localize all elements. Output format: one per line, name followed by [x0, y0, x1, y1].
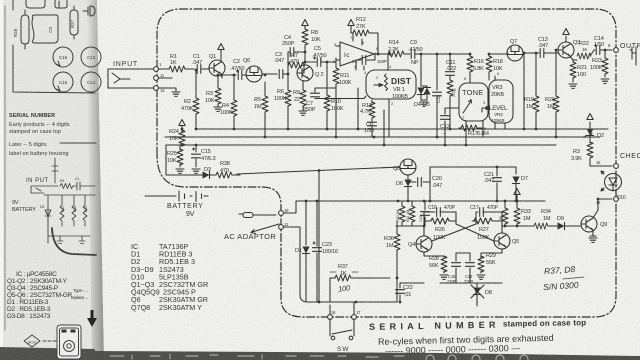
resistor column 3 — [83, 205, 87, 226]
transistor Q2 — [297, 65, 313, 81]
resistor R33 1M — [516, 195, 518, 208]
diode D5 — [426, 86, 428, 87]
wire stub Q7 line — [523, 53, 525, 129]
capacitor C20 .047 — [408, 181, 416, 183]
capacitor C11 .022 — [449, 54, 451, 70]
junction dots on rails — [195, 128, 198, 131]
AC adaptor plug — [239, 213, 243, 215]
pot TONE box — [459, 83, 488, 121]
check jack pin 15 — [614, 164, 619, 169]
wire Q1 emitter — [221, 74, 236, 78]
check jack pin 14 — [614, 197, 619, 202]
pcb part top rect — [26, 0, 45, 8]
resistor column 2 — [72, 205, 76, 226]
capacitor C12 .1 — [444, 108, 446, 114]
capacitor C4 250P — [288, 52, 290, 65]
emitter node Q3 — [570, 56, 577, 60]
capacitor C16 470P — [424, 211, 435, 213]
resistor R8 10K — [304, 45, 306, 52]
capacitor C16 pcb — [53, 47, 73, 67]
ground Q9 — [590, 230, 596, 236]
capacitor C7 250P — [315, 88, 336, 92]
wire vertical — [52, 158, 58, 183]
9V switching rail — [283, 201, 545, 213]
pot DIST VR1 100KB — [387, 54, 389, 70]
capacitor C10 — [436, 54, 438, 90]
capacitor C13 .047 — [540, 49, 544, 58]
resistor R11 100K — [335, 60, 337, 137]
parts list main page — [131, 242, 208, 312]
switch net line — [308, 301, 397, 303]
resistor R24 10K — [181, 126, 183, 129]
capacitor C2 .47/50 — [238, 71, 242, 80]
base line to Q9 — [502, 225, 534, 227]
resistor R23 100K — [604, 50, 606, 58]
resistor R16 6.8K — [469, 54, 471, 56]
left page PCB layout box — [13, 0, 95, 93]
pcb labels — [13, 19, 96, 85]
pcb part top small rect — [55, 0, 67, 8]
capacitor C3 .047 — [279, 70, 283, 79]
pin stubs IC — [336, 33, 382, 70]
serial number note left page — [9, 113, 70, 157]
resistor R32 10K — [504, 201, 506, 208]
resistor column 1 — [60, 205, 64, 226]
left page mini schematic — [31, 158, 96, 255]
transistor Q1 — [209, 60, 225, 76]
parts list left page — [7, 271, 88, 320]
resistor R12 27K — [351, 26, 353, 33]
thick border curve left page — [52, 228, 96, 255]
resistor R37 1K — [330, 278, 335, 302]
node wires — [44, 195, 95, 243]
transistor Q7 FET switch — [507, 45, 523, 61]
resistor R27 100K — [472, 220, 476, 222]
resistor R29 56K — [481, 249, 502, 258]
resistor R36 1M — [396, 250, 398, 302]
resistor R27 pcb — [70, 6, 78, 39]
capacitor C1 left page — [73, 182, 95, 190]
transistor Q3 — [558, 42, 574, 58]
diode D3 left page — [45, 210, 51, 226]
resistor R14 2.2K — [382, 53, 388, 55]
resistor R28 56K — [424, 252, 444, 258]
capacitor C15 47/6.3 — [193, 145, 197, 152]
capacitor C5 .47/50 — [305, 57, 316, 62]
switch line from R38 to Q8 — [237, 167, 400, 174]
resistor R18 10K — [488, 54, 490, 56]
transistor Q5 — [494, 233, 510, 249]
capacitor C8 1/50 — [368, 122, 377, 126]
resistor R19 1M — [535, 53, 537, 96]
resistor R17 6.8M — [459, 127, 461, 129]
capacitor C13 pcb — [81, 47, 101, 67]
diode D3 — [166, 145, 202, 175]
scan noise overlay — [0, 0, 1, 1]
input jack — [108, 69, 153, 88]
transistor Q4 — [416, 236, 432, 252]
capacitor C15 pcb — [53, 72, 73, 92]
resistor R26 100K — [424, 220, 430, 222]
pedal drawing — [57, 325, 81, 359]
pointer line — [60, 142, 96, 144]
rail stubs verticals — [196, 53, 508, 145]
capacitor pcb top right — [83, 6, 95, 16]
transistor Q9 — [581, 216, 597, 232]
resistor R28 pcb — [21, 10, 29, 49]
left scanner edge line — [4, 6, 6, 330]
resistor R35 3.9K — [587, 142, 593, 158]
output jack pin 9 — [614, 48, 619, 53]
capacitor C9 .47/50 NP — [411, 50, 415, 59]
resistor R25 10K — [179, 145, 181, 150]
resistor R21 100 — [572, 60, 574, 62]
SW pins 16 17 — [328, 315, 333, 320]
vcc arrow D2 — [587, 114, 593, 120]
resistor R9 22 — [302, 81, 304, 110]
resistor R7 470 — [288, 64, 289, 66]
capacitor C19 220P — [469, 253, 471, 261]
battery 9V — [145, 191, 208, 202]
stray lower page fragments in band — [110, 354, 528, 360]
output jack symbol — [630, 47, 636, 65]
capacitor C6 150P — [356, 53, 375, 60]
capacitor C24 — [424, 201, 426, 210]
diode D9 — [558, 222, 565, 229]
op-amp IC TA7136P triangle — [340, 42, 374, 66]
page boundary shadow — [86, 0, 104, 360]
AC adaptor pins 19 12 — [279, 211, 284, 216]
resistor R20 1M — [555, 50, 557, 96]
wire Q6 drain to C3 — [262, 73, 277, 75]
diode D1 — [305, 201, 307, 245]
diode D7 — [515, 167, 517, 174]
transistor Q6 FET switch — [246, 66, 262, 82]
handwritten R37 D8 note — [543, 264, 584, 292]
capacitor C9 pcb — [32, 15, 58, 43]
resistor R10 100K — [326, 62, 328, 129]
resistor R6 100K — [287, 74, 289, 129]
pot VR3 20KB / LEVEL VR2 100KB — [489, 80, 513, 123]
LED D10 CHECK — [605, 174, 622, 191]
vcc arrow Q3 — [565, 36, 567, 42]
transistor Q8 FET — [400, 159, 416, 175]
diamond logo — [24, 335, 56, 347]
ground input — [175, 88, 177, 91]
ground bus — [48, 236, 90, 244]
capacitor C22 .01 — [399, 283, 401, 288]
flipflop collector node Q4 — [396, 226, 425, 236]
diode D4 — [420, 54, 422, 86]
black down arrow — [87, 310, 97, 327]
resistors R30 R31 flipflop bias — [398, 201, 412, 226]
resistor R38 470 — [216, 172, 232, 178]
foot switch SW — [331, 336, 335, 340]
capacitor C14 pcb — [81, 72, 101, 92]
zener diode D2 — [589, 122, 591, 128]
bottom dark scan band — [0, 347, 95, 360]
IN PUT jack wires — [31, 186, 58, 193]
enclosure border — [157, 9, 616, 317]
diode D8 crossed out — [476, 283, 478, 287]
input jack pins — [154, 67, 159, 72]
long vertical to flipflop — [318, 170, 320, 302]
resistor R3 10K — [217, 75, 219, 88]
typed serial note bottom — [369, 318, 587, 356]
capacitor C1 .047 — [197, 65, 201, 74]
diode D6 — [407, 175, 409, 179]
battery label left page — [12, 177, 88, 213]
resistor R5 1M — [264, 82, 266, 137]
capacitor C23 100/16 — [313, 201, 317, 246]
wire Q8 line to C21 D7 — [430, 166, 516, 168]
resistor R1 1K — [169, 66, 185, 72]
cross coupling wires — [432, 224, 494, 241]
resistor R34 1M — [534, 223, 548, 229]
vcc arrow R8 — [302, 20, 308, 26]
capacitor C18 220P — [455, 253, 457, 261]
main rail to Q7 — [489, 53, 507, 55]
capacitor C17 470P — [476, 211, 478, 213]
vcc arrow Q1 — [220, 50, 222, 62]
resistor R22 1K — [577, 53, 591, 59]
resistor R15 2.2K — [449, 76, 451, 129]
capacitor C14 1/50 — [596, 46, 600, 55]
capacitor C21 .047 — [496, 167, 498, 176]
resistor R13 4.7K — [371, 100, 373, 103]
long rails — [165, 129, 608, 145]
resistor R1 left page — [60, 184, 73, 189]
